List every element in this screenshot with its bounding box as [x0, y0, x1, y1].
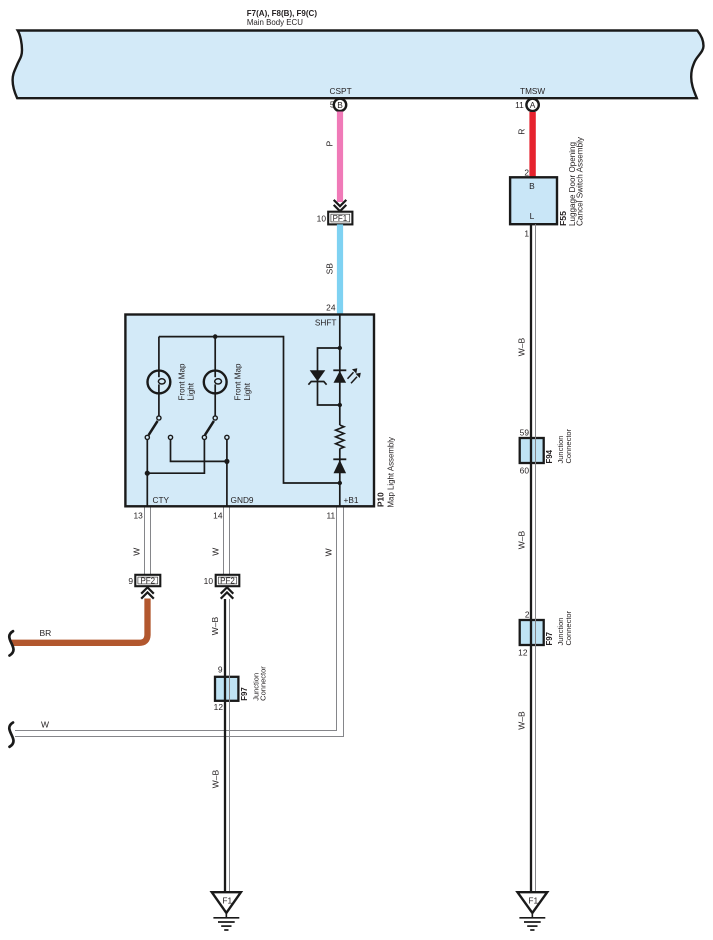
svg-text:B: B — [337, 100, 343, 110]
svg-text:P10: P10 — [376, 492, 386, 507]
wire R red — [529, 112, 535, 177]
label Junction Connector (F97 right) — [556, 610, 573, 645]
node dot above lamp2 — [213, 334, 218, 339]
wire SW2 left contact — [147, 440, 204, 474]
svg-text:2: 2 — [524, 167, 529, 177]
svg-text:Cancel Switch Assembly: Cancel Switch Assembly — [576, 137, 585, 226]
label Luggage Door Opening Cancel Switch Assembly — [568, 137, 584, 226]
svg-text:2: 2 — [525, 609, 530, 619]
connector PF2 no1 — [135, 575, 160, 586]
svg-text:CSPT: CSPT — [330, 86, 352, 96]
svg-text:GND9: GND9 — [231, 495, 254, 505]
svg-text:B: B — [529, 181, 535, 191]
svg-text:F97: F97 — [545, 631, 554, 645]
junction connector F97 right square — [520, 620, 544, 645]
connector circle A (TMSW pin 11) — [526, 99, 538, 111]
chevron out of PF2 no2 — [221, 587, 234, 598]
svg-text:13: 13 — [133, 511, 143, 521]
switch F55 box — [510, 177, 557, 224]
svg-text:F1: F1 — [528, 896, 538, 906]
svg-text:W–B: W–B — [210, 616, 220, 635]
svg-text:SB: SB — [325, 263, 335, 275]
svg-text:W: W — [132, 548, 142, 556]
svg-text:SHFT: SHFT — [315, 317, 337, 327]
svg-text:10: 10 — [317, 213, 327, 223]
svg-text:P: P — [325, 141, 335, 147]
torn end of W wire — [9, 723, 13, 747]
junction connector F97 left square — [215, 677, 238, 701]
svg-text:1: 1 — [524, 228, 529, 238]
svg-text:F97: F97 — [240, 687, 249, 701]
svg-text:Front Map: Front Map — [177, 363, 186, 400]
wire lamp rail — [159, 337, 340, 483]
zener diode — [308, 370, 326, 384]
svg-text:PF2: PF2 — [220, 577, 235, 586]
svg-text:L: L — [530, 211, 535, 221]
junction connector F94 square — [520, 438, 544, 463]
svg-text:PF1: PF1 — [333, 214, 348, 223]
svg-text:10: 10 — [204, 576, 214, 586]
Map Light Assembly box P10 — [125, 315, 374, 507]
ground F1 left — [212, 892, 241, 930]
node dot CTY join — [145, 471, 150, 476]
svg-text:9: 9 — [218, 664, 223, 674]
LED arrows — [348, 368, 361, 383]
svg-text:Main Body ECU: Main Body ECU — [247, 18, 303, 27]
chevron into PF1 — [334, 200, 347, 211]
chevron out of PF2 no1 — [141, 587, 154, 598]
label Junction Connector (F94) — [556, 428, 573, 463]
svg-text:W: W — [324, 548, 334, 556]
svg-text:11: 11 — [326, 511, 335, 521]
wire P pink — [337, 112, 343, 203]
wire SB — [337, 224, 343, 316]
svg-text:F94: F94 — [545, 449, 554, 463]
wire W pin13 to PF2 — [145, 508, 151, 575]
wire W pin14 to PF2 — [224, 508, 230, 575]
node dot GND9 join — [224, 459, 229, 464]
node dot SHFT branch top — [338, 346, 342, 350]
lamp L2 Front Map Light — [204, 337, 227, 416]
wire SW1 right contact — [171, 440, 227, 462]
switch SW2 — [202, 416, 229, 440]
svg-text:Map Light Assembly: Map Light Assembly — [386, 437, 395, 508]
svg-text:W: W — [41, 719, 49, 729]
svg-text:PF2: PF2 — [140, 577, 155, 586]
Main Body ECU band — [13, 31, 704, 99]
switch SW1 — [145, 416, 172, 440]
svg-text:W: W — [211, 548, 221, 556]
svg-text:Connector: Connector — [564, 610, 573, 645]
svg-text:F1: F1 — [222, 896, 232, 906]
node dot SHFT branch bottom — [338, 403, 342, 407]
connector circle B (CSPT pin 5) — [334, 99, 346, 111]
svg-text:Front Map: Front Map — [234, 363, 243, 400]
svg-text:F55: F55 — [559, 210, 568, 226]
svg-text:CTY: CTY — [153, 495, 170, 505]
svg-text:TMSW: TMSW — [520, 86, 545, 96]
svg-text:Light: Light — [243, 382, 252, 400]
svg-text:Connector: Connector — [564, 428, 573, 463]
svg-text:60: 60 — [520, 465, 530, 475]
resistor — [336, 425, 344, 449]
svg-text:Light: Light — [187, 382, 196, 400]
wire BR brown — [12, 599, 148, 643]
wire zener branch — [318, 348, 340, 405]
svg-text:59: 59 — [520, 427, 530, 437]
wire SW1 left to CTY — [146, 440, 148, 507]
wire W-B right chain — [531, 224, 536, 892]
label Front Map Light (L2) — [234, 363, 252, 400]
connector PF2 no2 — [216, 575, 240, 586]
svg-text:W–B: W–B — [517, 530, 527, 549]
svg-text:BR: BR — [40, 628, 52, 638]
wire W pin11 down and left — [15, 508, 344, 737]
svg-text:12: 12 — [214, 702, 224, 712]
svg-text:R: R — [517, 129, 527, 135]
wire SW2 right to GND9 — [226, 440, 228, 507]
LED diode — [333, 370, 346, 383]
svg-text:9: 9 — [128, 576, 133, 586]
svg-text:24: 24 — [326, 302, 336, 312]
svg-text:14: 14 — [213, 511, 223, 521]
wire W-B pin14 chain — [225, 599, 230, 892]
torn end of BR wire — [9, 631, 13, 655]
ground F1 right — [518, 892, 548, 930]
svg-text:W–B: W–B — [517, 711, 527, 730]
svg-text:Connector: Connector — [259, 666, 268, 701]
svg-text:11: 11 — [515, 100, 524, 110]
svg-text:W–B: W–B — [517, 337, 527, 356]
connector PF1 — [328, 212, 352, 225]
diode D2 — [333, 459, 346, 473]
svg-text:+B1: +B1 — [344, 495, 359, 505]
label Junction Connector (F97 left) — [251, 666, 267, 701]
svg-text:F7(A), F8(B), F9(C): F7(A), F8(B), F9(C) — [247, 9, 317, 18]
svg-text:12: 12 — [518, 648, 528, 658]
wire SHFT to +B1 internal — [339, 315, 341, 507]
svg-text:A: A — [530, 100, 536, 110]
lamp L1 Front Map Light — [148, 337, 171, 416]
node dot +B1 join — [338, 481, 342, 485]
label Front Map Light (L1) — [177, 363, 195, 400]
svg-text:W–B: W–B — [211, 769, 221, 788]
